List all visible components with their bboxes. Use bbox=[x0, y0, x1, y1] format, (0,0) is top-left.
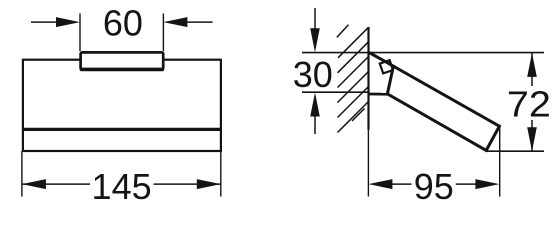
svg-text:72: 72 bbox=[507, 83, 551, 124]
dim 60 right arrow bbox=[163, 17, 212, 27]
svg-text:95: 95 bbox=[414, 166, 454, 207]
front view wall-mount tab bbox=[81, 52, 164, 69]
bar body bbox=[369, 52, 499, 150]
dim 60 left extension line bbox=[79, 14, 81, 52]
top reference line bbox=[302, 52, 544, 54]
mounting screw square bbox=[380, 60, 393, 73]
svg-text:30: 30 bbox=[293, 54, 333, 95]
dim 145 line and arrows bbox=[22, 179, 221, 189]
wall hatching bbox=[337, 25, 369, 133]
dim 60 label bbox=[103, 2, 143, 43]
dim 145 right extension line bbox=[220, 151, 222, 197]
dim 72 bottom reference line bbox=[487, 150, 544, 152]
dim 60 left arrow bbox=[31, 17, 80, 27]
dim 95 left extension line bbox=[367, 130, 369, 197]
dim 30 top arrow bbox=[310, 8, 320, 52]
dim 30 bottom arrow bbox=[310, 93, 320, 135]
dim 72 label bbox=[507, 83, 551, 124]
dim 72 line and arrows bbox=[527, 53, 537, 151]
svg-text:145: 145 bbox=[92, 166, 152, 207]
dim 95 label bbox=[414, 166, 454, 207]
bar tip extension line bbox=[499, 128, 501, 197]
front view shelf line bbox=[22, 128, 222, 131]
dim 30 label bbox=[293, 54, 333, 95]
dim 60 right extension line bbox=[162, 14, 164, 52]
dim 145 left extension line bbox=[21, 151, 23, 197]
mount bottom edge bbox=[369, 93, 388, 96]
svg-text:60: 60 bbox=[103, 2, 143, 43]
dim 145 label bbox=[92, 166, 152, 207]
dim 95 line and arrows bbox=[368, 179, 499, 189]
wall line bbox=[367, 27, 369, 130]
dim 30 bottom reference line bbox=[302, 91, 369, 93]
front view body outline bbox=[23, 60, 221, 151]
